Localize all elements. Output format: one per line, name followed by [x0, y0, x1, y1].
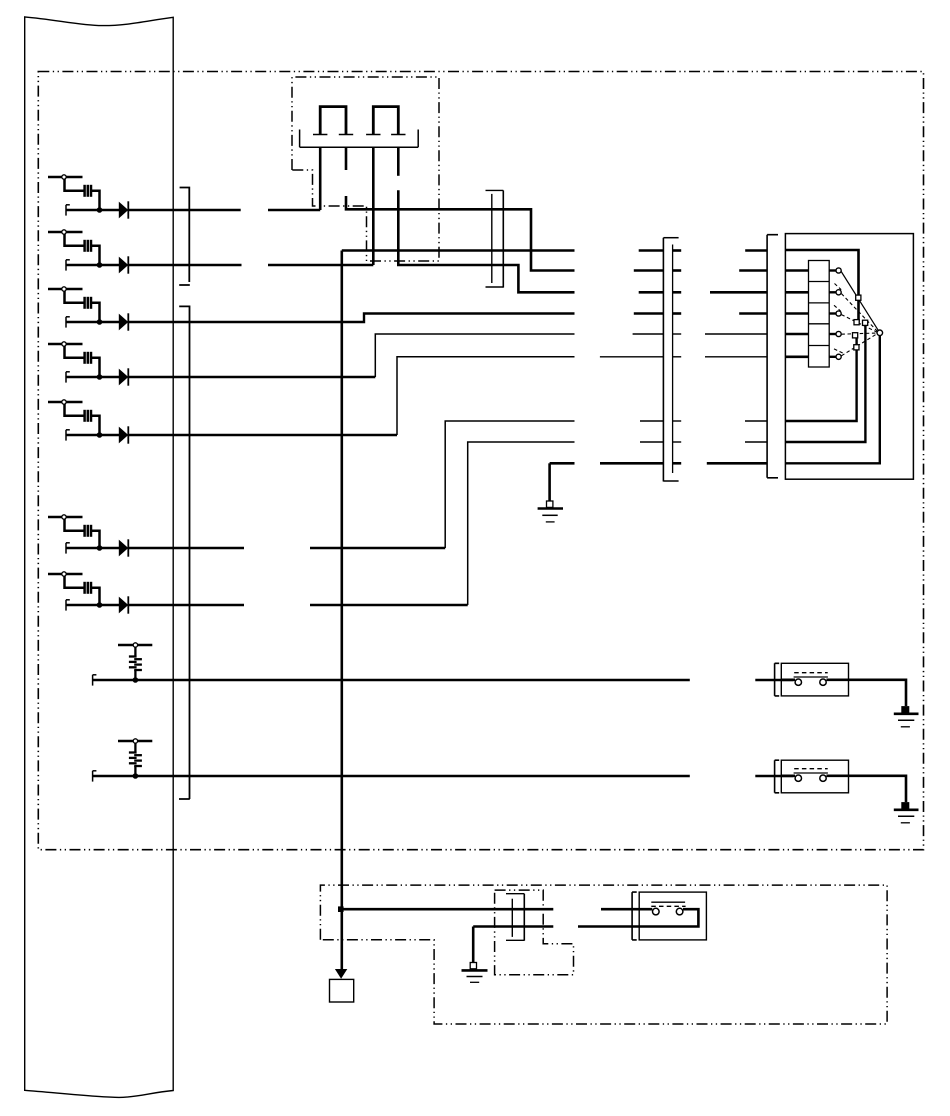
ground G1 bolt square: [547, 501, 553, 507]
resistor R8 vertical ladder: [129, 647, 142, 680]
diode D2: [119, 256, 129, 273]
switch contact row 1 feed line: [48, 176, 83, 179]
contact circle row 9: [133, 739, 137, 743]
wire row7 resumed: [310, 604, 468, 606]
switch SW1 dashed actuator line: [794, 672, 828, 674]
wire row 7 anode side: [66, 604, 119, 607]
contact circle row 3: [62, 287, 66, 291]
dashed detent stub above contact 3: [834, 305, 841, 311]
wire row 9 to gap: [93, 775, 690, 778]
switch contact circle y=356.8: [836, 354, 841, 359]
switch SW2 solid contact bar: [794, 772, 828, 774]
coil W5 (hatch): [65, 404, 100, 435]
connector C1: [486, 190, 504, 287]
diode D5: [119, 426, 129, 443]
wire row 8 to gap: [93, 679, 690, 682]
junction dot row 1: [97, 207, 103, 213]
ground G1 wire drop: [548, 463, 551, 501]
coil W2 (hatch): [65, 234, 100, 265]
junction connector dash-dot outline: [495, 890, 574, 975]
fuse terminal tick x=346.0: [339, 134, 353, 136]
switch SW1 wire in: [781, 678, 795, 681]
wiper pivot circle: [877, 330, 883, 336]
contact circle row 5: [62, 400, 66, 404]
switch S3 dashed line: [651, 905, 685, 907]
junction dot row 7: [97, 602, 103, 608]
connector bracket J2: [179, 306, 190, 799]
ground G2 drop: [472, 927, 475, 963]
wire lower feed: [342, 908, 554, 911]
switch node square (856.6,322.2): [854, 320, 859, 325]
fuse block dash-dot border: [292, 77, 439, 261]
fuse terminal tick x=398.3: [391, 134, 405, 136]
wire stub C2 out y=334: [673, 333, 682, 335]
wire row 4 anode side: [66, 376, 119, 379]
switch SW1 bracket: [775, 663, 780, 696]
wire pin row 250 segment: [639, 249, 664, 252]
switch S3 contact circle left: [653, 908, 660, 915]
switch SW2 box: [781, 760, 848, 793]
coil W1 (hatch): [65, 179, 100, 210]
coil W4 (hatch): [65, 346, 100, 377]
wire switch output 2 vertical: [785, 323, 865, 442]
wire stub C2 out y=442: [673, 441, 682, 443]
fuse F1: [320, 107, 346, 135]
terminal hook row 4: [66, 372, 70, 383]
switch SW2 wire out to ground corner: [826, 776, 906, 802]
junction dot row 2: [97, 262, 103, 268]
wire row5 to jog corner: [128, 434, 397, 437]
wire stub C2 out y=270.5: [673, 269, 682, 272]
dashed detent stub above contact 5: [834, 349, 844, 354]
diode D6: [119, 539, 129, 556]
switch SW2 contact circle right: [820, 775, 826, 781]
arrow head off-page: [335, 969, 347, 979]
contact circle row 1: [62, 175, 66, 179]
wire fuse F2 right leg stub: [397, 147, 400, 176]
switch S3 box: [639, 892, 706, 940]
switch contact stub y=356.8: [829, 356, 836, 358]
switch contact row 6 feed line: [48, 516, 83, 519]
switch node square (865.1,322.8): [863, 320, 868, 325]
coil W6 (hatch): [65, 519, 100, 548]
wire fuse F1 right leg to pin row: [346, 196, 575, 271]
switch SW2 wire in: [781, 774, 795, 777]
ground G1 symbol: [538, 509, 563, 522]
wire row5 jog up and right: [397, 357, 575, 435]
switch node square (856.4,347.3): [854, 345, 859, 350]
wire stub C2 out y=292.3: [673, 291, 682, 294]
wire segment to J3 y=334: [705, 333, 767, 335]
fuse F2: [373, 107, 398, 135]
wire switch output 1 vertical: [785, 335, 856, 421]
switch S3 solid bar: [651, 901, 685, 903]
diode D3: [119, 313, 129, 330]
switch contact circle y=270.5: [836, 268, 841, 273]
wire row 3 anode side: [66, 321, 119, 324]
sensor row 9 feed line: [118, 740, 152, 743]
wire row 5 anode side: [66, 434, 119, 437]
wire segment to J3 y=356.8: [705, 356, 767, 358]
wire segment to J3 y=463.3: [707, 462, 767, 465]
harness trunk strip: [25, 17, 174, 1098]
sensor row 8 feed line: [118, 644, 152, 647]
wire row 1 anode side: [66, 209, 119, 212]
wire segment to J3 y=313.5: [739, 312, 767, 315]
trunk junction square: [338, 906, 344, 912]
main module dash-dot border: [38, 72, 923, 850]
coil W3 (hatch): [65, 291, 100, 322]
contact circle row 8: [133, 643, 137, 647]
junction dot row 4: [97, 374, 103, 380]
wire stub C2 out y=463.3: [673, 462, 682, 465]
wire row 2 anode side: [66, 264, 119, 267]
junction dot row 8: [133, 677, 139, 683]
terminal hook row 1: [66, 205, 70, 216]
wire row1 resumed to fuse leg: [268, 209, 320, 212]
switch contact stub y=292.3: [829, 291, 836, 293]
diode D4: [119, 368, 129, 385]
fuse terminal tick x=320.2: [313, 134, 327, 136]
wire stub C2 out y=421: [673, 420, 682, 422]
wire pin row 421 segment: [640, 420, 663, 422]
wire segment to J3 y=442: [745, 441, 767, 443]
switch node square (855.1,335.3): [853, 333, 858, 338]
wire pin inside box y=356.8: [785, 355, 808, 358]
wire row 8 resumed to relay: [755, 679, 793, 682]
contact circle row 6: [62, 515, 66, 519]
wire ground row 463 from ground corner: [550, 462, 575, 465]
coil W7 (hatch): [65, 576, 100, 605]
wire row6 cathode to gap: [128, 547, 244, 550]
dashed wiper position from contact 2: [841, 294, 877, 332]
wire row 6 anode side: [66, 547, 119, 550]
switch SW1 contact circle right: [820, 679, 826, 685]
switch contact circle y=313.5: [836, 311, 841, 316]
wire row3 with jog up: [128, 314, 574, 323]
switch wafer stack: [809, 261, 830, 368]
switch SW2 ground symbol: [894, 810, 919, 823]
terminal hook row 7: [66, 600, 70, 611]
switch contact stub y=313.5: [829, 312, 836, 314]
wire fuse F1 right leg stub: [345, 147, 348, 170]
wire pin inside box y=292.3: [785, 291, 808, 294]
dashed wiper position from contact 4: [841, 333, 876, 334]
wire pin row 334 segment: [633, 333, 664, 335]
contact circle row 4: [62, 342, 66, 346]
switch SW1 contact circle left: [795, 679, 801, 685]
wiper solid arm: [841, 272, 880, 333]
dashed wiper position from contact 5: [841, 334, 877, 356]
wire pin1 inside box: [785, 250, 858, 322]
switch SW2 bracket: [775, 760, 780, 793]
terminal hook row 8: [93, 675, 97, 686]
wire fuse F2 left leg to row2: [372, 147, 375, 265]
switch contact circle y=292.3: [836, 290, 841, 295]
wire switch output 3 vertical: [785, 333, 879, 464]
switch contact row 2 feed line: [48, 231, 83, 234]
wire row 9 resumed to relay: [755, 775, 793, 778]
combination switch box outline: [785, 234, 913, 480]
switch S3 return loop: [578, 909, 698, 926]
switch SW1 ground symbol: [894, 714, 919, 727]
switch node square (858.3,297.7): [856, 295, 861, 300]
terminal hook row 5: [66, 430, 70, 441]
wire row1 cathode to gap: [128, 209, 240, 212]
wire trunk feed (pin1) horizontal: [342, 249, 575, 252]
switch SW1 ground bolt square: [901, 706, 909, 713]
wire row2 cathode to gap: [128, 264, 241, 267]
wire row6 jog up and right: [445, 421, 574, 548]
dashed detent stub above contact 2: [835, 284, 842, 290]
wire fuse F1 left leg to row1: [319, 147, 322, 210]
terminal hook row 3: [66, 317, 70, 328]
connector C2: [663, 238, 678, 482]
junction dot row 9: [133, 773, 139, 779]
connector C4: [506, 894, 524, 941]
dashed wiper position from contact 3: [841, 315, 877, 333]
wire stub C2 out y=313.5: [673, 312, 682, 315]
wire stub C2 out y=356.8: [673, 356, 682, 358]
wire lower feed resumed: [601, 908, 652, 911]
wire segment to J3 y=421: [745, 420, 767, 422]
diode D7: [119, 596, 129, 613]
junction dot row 5: [97, 432, 103, 438]
switch SW2 ground bolt square: [901, 802, 909, 809]
wire stub C2 out y=250.5: [673, 249, 682, 252]
wire pin row 313 segment: [634, 312, 664, 315]
switch contact circle y=334: [836, 331, 841, 336]
switch SW1 box: [781, 663, 848, 696]
off-page reference box: [330, 979, 354, 1002]
wire pin row 442 segment: [640, 441, 663, 443]
connector bracket J3: [767, 235, 778, 478]
ground G2 symbol: [462, 970, 488, 982]
wire segment to J3 y=250.5: [745, 249, 767, 252]
fuse terminal tick x=373.3: [366, 134, 380, 136]
terminal hook row 6: [66, 543, 70, 554]
switch S3 contact circle right: [676, 908, 683, 915]
wire return resumed: [473, 925, 553, 928]
wire ground row 463 segment: [600, 462, 663, 465]
wire pin inside box y=313.5: [785, 312, 808, 315]
switch S3 bracket: [632, 892, 637, 940]
lower harness dash-dot outline: [320, 885, 887, 1024]
junction dot row 3: [97, 319, 103, 325]
switch contact row 4 feed line: [48, 343, 83, 346]
wire row7 cathode to gap: [128, 604, 244, 607]
switch contact row 5 feed line: [48, 401, 83, 404]
wire pin row 357 segment: [600, 356, 664, 358]
fuse holder bus rail: [299, 130, 301, 148]
wire segment to J3 y=270.5: [739, 269, 767, 272]
contact circle row 7: [62, 572, 66, 576]
switch SW2 contact circle left: [795, 775, 801, 781]
switch contact stub y=334: [829, 333, 836, 335]
wire row7 jog up and right: [468, 442, 575, 605]
ground G2 bolt square: [470, 963, 476, 969]
connector bracket J1: [179, 188, 190, 286]
wire row2 resumed to fuse leg: [268, 264, 373, 267]
resistor R9 vertical ladder: [129, 743, 142, 776]
wire row4 to jog corner: [128, 376, 375, 379]
wire pin row 292 segment: [639, 291, 664, 294]
wire pin inside box y=270.5: [785, 269, 808, 272]
diode D1: [119, 201, 129, 218]
switch SW1 wire out to ground corner: [826, 680, 906, 706]
wire trunk arrow continuation: [340, 909, 343, 969]
wire pin inside box y=334: [785, 333, 808, 336]
wire pin row 270 segment: [634, 269, 664, 272]
wire trunk vertical to lower section: [340, 251, 343, 909]
junction dot row 6: [97, 545, 103, 551]
terminal hook row 2: [66, 260, 70, 271]
wire segment to J3 y=292.3: [710, 291, 767, 294]
switch SW1 solid contact bar: [794, 676, 828, 678]
contact circle row 2: [62, 230, 66, 234]
switch contact row 7 feed line: [48, 573, 83, 576]
wire fuse F2 right leg to pin row: [398, 190, 574, 292]
switch contact stub y=270.5: [829, 269, 836, 271]
switch SW2 dashed actuator line: [794, 768, 828, 770]
wire row4 jog up and right: [375, 334, 574, 377]
switch contact row 3 feed line: [48, 288, 83, 291]
wire row6 resumed: [310, 547, 445, 549]
terminal hook row 9: [93, 771, 97, 782]
